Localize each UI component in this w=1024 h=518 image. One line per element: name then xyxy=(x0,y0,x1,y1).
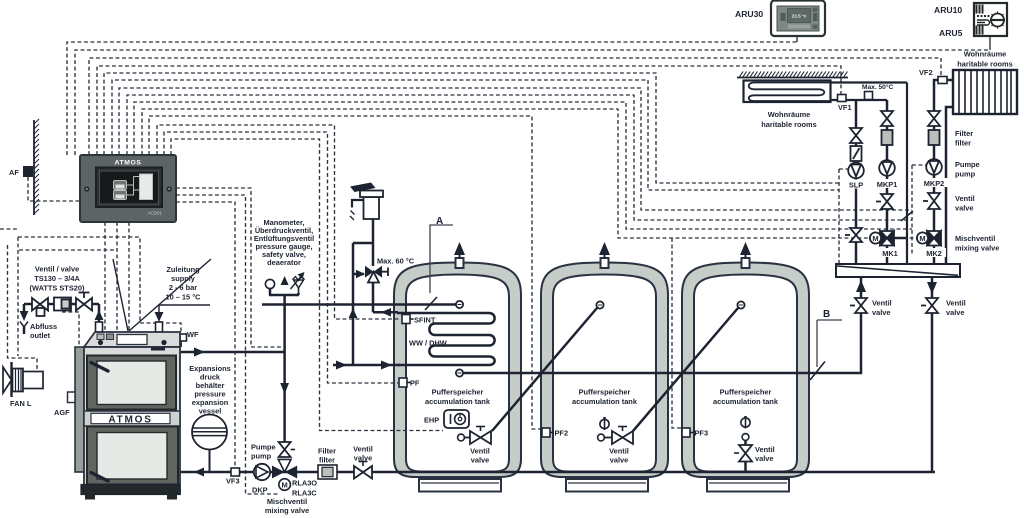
svg-text:deaerator: deaerator xyxy=(267,258,301,267)
svg-text:valve: valve xyxy=(946,308,965,317)
svg-text:pump: pump xyxy=(955,170,976,179)
svg-text:VF3: VF3 xyxy=(226,477,240,486)
svg-text:Ventil / valve: Ventil / valve xyxy=(35,265,79,274)
svg-text:PF3: PF3 xyxy=(695,429,709,438)
svg-text:Wohnräume: Wohnräume xyxy=(964,50,1007,59)
svg-text:Ventil: Ventil xyxy=(609,447,629,456)
svg-text:valve: valve xyxy=(755,454,774,463)
svg-text:Pumpe: Pumpe xyxy=(955,160,980,169)
svg-text:EHP: EHP xyxy=(424,416,439,425)
svg-text:AGF: AGF xyxy=(54,408,70,417)
svg-text:accumulation tank: accumulation tank xyxy=(572,397,638,406)
svg-text:ACD01: ACD01 xyxy=(147,211,162,216)
svg-text:SFINT: SFINT xyxy=(414,316,436,325)
svg-text:FAN L: FAN L xyxy=(10,399,32,408)
svg-text:B: B xyxy=(823,309,830,320)
svg-text:MK1: MK1 xyxy=(882,249,898,258)
svg-text:Ventil: Ventil xyxy=(470,447,490,456)
svg-text:Mischventil: Mischventil xyxy=(267,497,307,506)
svg-text:WW / DHW: WW / DHW xyxy=(409,339,447,348)
svg-text:22.5 °c: 22.5 °c xyxy=(792,14,807,19)
svg-text:2 - 6 bar: 2 - 6 bar xyxy=(169,283,197,292)
svg-text:valve: valve xyxy=(471,456,490,465)
svg-text:accumulation tank: accumulation tank xyxy=(425,397,491,406)
svg-text:M: M xyxy=(281,481,287,490)
svg-text:valve: valve xyxy=(610,456,629,465)
svg-text:Pufferspeicher: Pufferspeicher xyxy=(720,388,772,397)
svg-text:haritable rooms: haritable rooms xyxy=(761,120,816,129)
svg-text:TS130 – 3/4A: TS130 – 3/4A xyxy=(34,274,80,283)
svg-text:WF: WF xyxy=(187,330,199,339)
svg-text:A: A xyxy=(436,216,443,227)
svg-text:Ventil: Ventil xyxy=(872,299,892,308)
svg-text:mixing valve: mixing valve xyxy=(265,506,309,515)
svg-text:filter: filter xyxy=(955,139,971,148)
svg-text:ARU30: ARU30 xyxy=(735,9,763,19)
svg-text:pump: pump xyxy=(251,452,272,461)
svg-text:RLA3O: RLA3O xyxy=(292,479,317,488)
svg-text:Max. 50°C: Max. 50°C xyxy=(862,83,893,91)
svg-text:MKP2: MKP2 xyxy=(924,179,945,188)
svg-text:ARU10: ARU10 xyxy=(934,5,962,15)
svg-text:Filter: Filter xyxy=(318,447,336,456)
svg-text:ATMOS: ATMOS xyxy=(108,414,152,425)
svg-text:valve: valve xyxy=(872,308,891,317)
svg-text:PF2: PF2 xyxy=(555,429,569,438)
svg-text:AF: AF xyxy=(9,168,19,177)
svg-text:MK2: MK2 xyxy=(926,249,942,258)
svg-text:vessel: vessel xyxy=(199,407,222,416)
svg-text:ARU5: ARU5 xyxy=(939,28,963,38)
svg-text:valve: valve xyxy=(354,454,373,463)
svg-text:Ventil: Ventil xyxy=(946,299,966,308)
svg-text:Wohnräume: Wohnräume xyxy=(768,110,811,119)
svg-text:Max. 60 °C: Max. 60 °C xyxy=(377,257,415,266)
svg-text:M: M xyxy=(872,234,878,243)
svg-text:filter: filter xyxy=(319,456,335,465)
svg-text:M: M xyxy=(919,234,925,243)
svg-text:SLP: SLP xyxy=(849,181,863,190)
svg-text:Abfluss: Abfluss xyxy=(30,322,57,331)
svg-text:Zuleitung: Zuleitung xyxy=(166,265,200,274)
svg-text:Pumpe: Pumpe xyxy=(251,443,276,452)
svg-text:MKP1: MKP1 xyxy=(877,180,898,189)
svg-text:Pufferspeicher: Pufferspeicher xyxy=(432,388,484,397)
svg-text:accumulation tank: accumulation tank xyxy=(713,397,779,406)
svg-text:outlet: outlet xyxy=(30,331,51,340)
svg-text:Pufferspeicher: Pufferspeicher xyxy=(579,388,631,397)
svg-text:haritable rooms: haritable rooms xyxy=(957,60,1012,69)
svg-text:valve: valve xyxy=(955,204,974,213)
svg-text:(WATTS STS20): (WATTS STS20) xyxy=(30,284,85,293)
svg-text:PF: PF xyxy=(410,379,420,388)
svg-text:Ventil: Ventil xyxy=(955,194,975,203)
svg-text:Ventil: Ventil xyxy=(353,445,373,454)
svg-text:10 – 15 °C: 10 – 15 °C xyxy=(165,293,201,302)
svg-text:Ventil: Ventil xyxy=(755,445,775,454)
svg-text:VF2: VF2 xyxy=(919,68,933,77)
svg-text:Mischventil: Mischventil xyxy=(955,234,995,243)
svg-text:supply: supply xyxy=(171,274,196,283)
svg-text:DKP: DKP xyxy=(252,486,268,495)
svg-text:Filter: Filter xyxy=(955,129,973,138)
svg-text:ATMOS: ATMOS xyxy=(114,160,141,167)
svg-text:VF1: VF1 xyxy=(838,103,852,112)
svg-text:mixing valve: mixing valve xyxy=(955,244,999,253)
